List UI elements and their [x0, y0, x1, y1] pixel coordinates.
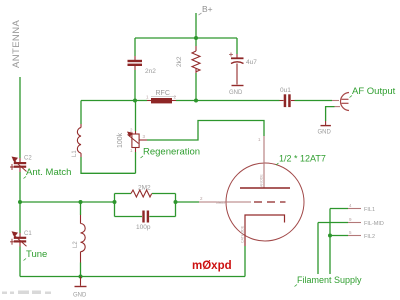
wire RFC rail [81, 100, 147, 102]
svg-text:GRID: GRID [216, 201, 225, 205]
junction B+ / top rail [194, 36, 198, 40]
tube U1 1/2 12AT7 envelope [226, 163, 304, 241]
junction bus / combo left [113, 200, 117, 204]
connector AF jack symbol [341, 93, 350, 111]
connector filament FIL-MID pin [348, 222, 361, 224]
svg-text:FIL-MID: FIL-MID [364, 221, 384, 227]
svg-text:FIL2: FIL2 [364, 234, 375, 240]
wire 2k2 branch lower [195, 73, 197, 101]
wire AF line to jack [295, 100, 333, 102]
wire filament vertical 2 [317, 223, 319, 275]
wire RC combo bottom branch left [115, 216, 143, 218]
wire RC combo top branch right [152, 193, 176, 195]
wire combo to grid [176, 201, 200, 203]
ground symbol GND (under 4u7) [232, 85, 244, 87]
capacitor C1 trimmer (Tune) [10, 231, 27, 246]
junction antenna / bus [18, 200, 22, 204]
wire RC combo right side [175, 194, 177, 217]
wire FIL2 [330, 235, 348, 237]
connector filament FIL1 pin [348, 208, 361, 210]
wire top rail right corner to 4u7 [236, 38, 238, 54]
wire pot wiper pin [139, 139, 147, 141]
wire antenna bus to C1 [19, 202, 21, 233]
svg-text:L1: L1 [72, 150, 78, 157]
wire grid bus [20, 201, 115, 203]
svg-text:AF Output: AF Output [352, 86, 396, 97]
junction 2k2 / RFC rail [194, 99, 198, 103]
wire L1 loop left upper [80, 101, 82, 125]
wire RC combo left side [114, 194, 116, 217]
junction L2 / bottom rail [79, 275, 83, 279]
svg-text:4u7: 4u7 [246, 59, 257, 66]
svg-text:CATHODE: CATHODE [241, 225, 245, 243]
wire filament vertical 1 [329, 209, 331, 275]
svg-text:GND: GND [318, 130, 332, 136]
wire C2 to bus [19, 172, 21, 202]
watermark artifacts bottom-left [2, 291, 51, 295]
wire pot bottom leg [135, 152, 137, 173]
ground symbol GND (AF jack) [325, 121, 327, 126]
svg-text:C1: C1 [24, 231, 32, 237]
connector filament FIL2 pin [348, 235, 361, 237]
svg-text:2M2: 2M2 [138, 185, 151, 192]
wire RC combo bottom branch right [149, 216, 175, 218]
svg-text:Regeneration: Regeneration [143, 147, 200, 158]
wire C1 to bottom rail [19, 247, 21, 277]
svg-text:RFC: RFC [156, 90, 170, 97]
svg-text:100p: 100p [136, 224, 151, 231]
svg-text:2n2: 2n2 [145, 68, 156, 75]
svg-text:Ant. Match: Ant. Match [26, 167, 71, 178]
wire 2n2 branch lower [134, 70, 136, 101]
connector AF jack pin 2 (ground side) [335, 106, 341, 108]
junction combo right / grid wire [174, 200, 178, 204]
svg-text:0u1: 0u1 [280, 87, 291, 94]
wire 2k2 branch upper [195, 38, 197, 46]
resistor 2M2 [131, 190, 152, 197]
wire wiper to anode [147, 121, 264, 141]
svg-text:mØxpd: mØxpd [192, 260, 232, 272]
capacitor C 2n2 [128, 56, 143, 70]
wire jack ground leg [326, 107, 335, 121]
svg-text:Filament Supply: Filament Supply [297, 275, 362, 285]
svg-text:ANODE: ANODE [260, 174, 264, 187]
svg-text:2k2: 2k2 [176, 56, 183, 67]
inductor RFC [147, 98, 176, 103]
tube cathode [245, 215, 285, 246]
connector AF jack pin 1 [332, 100, 339, 102]
wire FIL1 [330, 208, 348, 210]
capacitor 100p [142, 211, 149, 223]
inductor L1 [77, 124, 81, 157]
wire antenna lead [19, 77, 21, 158]
svg-text:GND: GND [73, 293, 87, 299]
wire top rail [135, 37, 237, 39]
svg-text:FIL1: FIL1 [364, 207, 375, 213]
tube anode pin [263, 136, 265, 188]
wire B+ vertical [195, 13, 197, 38]
svg-text:B+: B+ [202, 4, 213, 14]
svg-text:1/2 * 12AT7: 1/2 * 12AT7 [279, 154, 326, 164]
ground symbol GND (main) [80, 277, 82, 286]
junction FIL2 [328, 234, 332, 238]
svg-text:L2: L2 [73, 241, 79, 248]
capacitor C 4u7 polarized [229, 53, 244, 85]
wire bottom rail [20, 276, 245, 278]
wire L1 lower / bottom of loop [81, 157, 136, 173]
wire L2 bottom [80, 263, 82, 277]
tube grid pin [199, 201, 251, 203]
svg-text:Tune: Tune [26, 249, 47, 260]
wire RC combo top branch [115, 193, 132, 195]
wire cathode to bottom rail [244, 246, 246, 277]
tube plate bar [240, 187, 290, 189]
wire RFC rail to output cap [176, 100, 280, 102]
wire L2 top [80, 202, 82, 215]
svg-text:100k: 100k [117, 132, 124, 148]
svg-text:GND: GND [229, 90, 243, 96]
wire FIL-MID [318, 222, 348, 224]
junction 2n2 / RFC rail [133, 99, 137, 103]
junction L2 / bus [79, 200, 83, 204]
tube grid dashes [254, 201, 286, 203]
capacitor C2 trimmer (Ant. Match) [10, 157, 27, 173]
inductor L2 [81, 215, 86, 263]
svg-text:ANTENNA: ANTENNA [11, 20, 22, 68]
wire 2n2 branch upper [134, 38, 136, 56]
potentiometer 100k [127, 131, 139, 152]
capacitor C 0u1 [280, 94, 295, 107]
svg-text:C2: C2 [24, 156, 32, 162]
resistor 2k2 [192, 46, 200, 73]
wire pot top leg [135, 101, 137, 132]
